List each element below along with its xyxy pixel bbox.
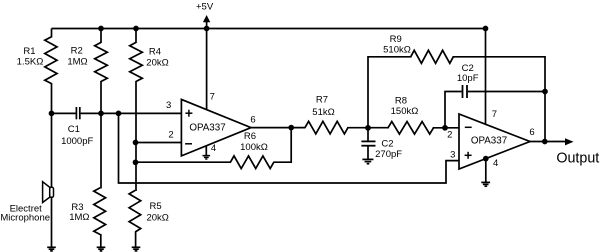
svg-text:R1: R1	[23, 46, 35, 57]
svg-text:+5V: +5V	[196, 1, 214, 12]
svg-text:R5: R5	[150, 201, 162, 212]
svg-text:3: 3	[166, 100, 171, 111]
svg-text:2: 2	[447, 129, 452, 140]
svg-text:Output: Output	[556, 150, 599, 166]
svg-text:R4: R4	[149, 46, 161, 57]
svg-text:4: 4	[211, 143, 216, 154]
svg-text:C1: C1	[68, 124, 80, 135]
svg-text:1000pF: 1000pF	[61, 136, 93, 147]
svg-text:3: 3	[450, 150, 455, 161]
svg-text:150kΩ: 150kΩ	[391, 106, 419, 117]
svg-text:270pF: 270pF	[375, 149, 402, 160]
svg-text:OPA337: OPA337	[189, 123, 225, 134]
svg-text:1MΩ: 1MΩ	[69, 212, 89, 223]
svg-text:R9: R9	[390, 34, 402, 45]
svg-text:R6: R6	[244, 131, 256, 142]
svg-text:2: 2	[168, 129, 173, 140]
svg-text:OPA337: OPA337	[471, 136, 507, 147]
svg-text:20kΩ: 20kΩ	[146, 57, 168, 68]
svg-text:10pF: 10pF	[457, 73, 479, 84]
svg-text:7: 7	[492, 109, 497, 120]
svg-text:1MΩ: 1MΩ	[67, 57, 87, 68]
svg-text:51kΩ: 51kΩ	[312, 107, 334, 118]
svg-text:Microphone: Microphone	[0, 213, 50, 224]
svg-text:510kΩ: 510kΩ	[383, 44, 411, 55]
svg-text:6: 6	[250, 115, 255, 126]
svg-text:100kΩ: 100kΩ	[240, 142, 268, 153]
svg-text:4: 4	[493, 158, 498, 169]
svg-text:6: 6	[529, 127, 534, 138]
svg-text:C2: C2	[381, 138, 393, 149]
svg-text:R2: R2	[71, 45, 83, 56]
svg-text:7: 7	[210, 91, 215, 102]
svg-text:20kΩ: 20kΩ	[146, 213, 168, 224]
svg-text:R8: R8	[395, 95, 407, 106]
svg-text:R7: R7	[316, 94, 328, 105]
svg-text:1.5KΩ: 1.5KΩ	[17, 57, 44, 68]
